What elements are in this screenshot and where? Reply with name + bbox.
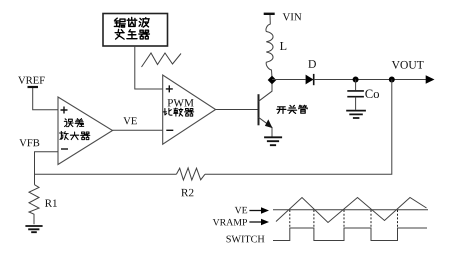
comparator label 比较器	[163, 108, 194, 116]
error amplifier label 放大器	[60, 131, 90, 139]
waveform VRAMP triangle wave	[276, 198, 427, 223]
resistor R1	[29, 185, 39, 225]
wire PWM output to transistor base	[216, 109, 258, 111]
R2 label	[181, 189, 193, 196]
ground under Q1 emitter	[264, 137, 282, 145]
waveform dashed crossing line 1	[289, 210, 291, 228]
wire from sawtooth generator down to PWM + input	[135, 46, 163, 89]
waveform VRAMP arrow	[249, 221, 262, 223]
sawtooth generator label line2 发生器	[115, 29, 149, 39]
sawtooth generator box	[103, 14, 168, 47]
transistor Q1 emitter	[259, 117, 273, 137]
Co label	[365, 90, 379, 98]
VOUT label	[392, 61, 424, 69]
waveform dashed crossing line 5	[397, 210, 399, 228]
waveform SWITCH label	[226, 236, 264, 243]
wire node to diode	[272, 79, 306, 81]
waveform VE arrow	[249, 210, 262, 212]
VOUT arrowhead	[426, 75, 435, 83]
waveform VE label	[235, 207, 247, 214]
error amplifier label 误差	[64, 119, 83, 127]
D label	[308, 60, 316, 68]
waveform VE level line	[273, 209, 428, 211]
capacitor Co	[355, 80, 357, 91]
wire VREF bar to error amplifier + input	[33, 88, 58, 110]
PWM comparator + input marker	[166, 85, 173, 92]
waveform dashed crossing line 2	[313, 210, 315, 228]
ground under Co	[346, 111, 366, 118]
waveform SWITCH square wave	[273, 228, 427, 241]
sawtooth generator label line1 锯齿波	[114, 17, 149, 27]
transistor Q1 collector	[259, 84, 273, 102]
waveform dashed crossing line 3	[343, 210, 345, 228]
sawtooth waveform symbol	[142, 53, 182, 67]
error amplifier - input marker	[61, 148, 68, 150]
feedback wire from VOUT node down then left to R2	[205, 80, 392, 175]
wire VE: error amp output to PWM - input	[113, 129, 163, 131]
op-amp U1 error amplifier outline	[58, 97, 113, 165]
transistor label 开关管	[277, 105, 307, 113]
ground under R1	[25, 226, 42, 232]
wire R2 to VFB node	[35, 173, 177, 175]
node VE label	[123, 117, 136, 124]
error amplifier + input marker	[61, 107, 68, 114]
PWM label	[168, 99, 194, 107]
VIN supply bar	[264, 13, 275, 15]
PWM comparator - input marker	[166, 129, 173, 131]
resistor R2	[176, 168, 205, 180]
node VFB label	[19, 139, 39, 146]
node VIN label	[283, 13, 302, 20]
main output wire to VOUT arrow	[314, 79, 427, 81]
node dot at Co tap	[353, 77, 359, 83]
node junction diamond	[268, 76, 277, 85]
transistor Q1 base bar	[258, 94, 260, 125]
waveform VRAMP label	[213, 219, 247, 226]
wire VFB corner to error amplifier - input	[35, 152, 59, 185]
node dot at feedback tap	[389, 77, 395, 83]
diode D	[306, 75, 314, 85]
VREF supply bar	[28, 86, 39, 88]
R1 label	[45, 199, 57, 206]
inductor L	[266, 15, 273, 78]
waveform dashed crossing line 4	[370, 210, 372, 228]
L label	[280, 42, 286, 50]
transistor Q1 emitter arrow	[265, 119, 273, 128]
comparator U2 PWM outline	[163, 75, 216, 144]
node VREF label	[18, 77, 45, 84]
